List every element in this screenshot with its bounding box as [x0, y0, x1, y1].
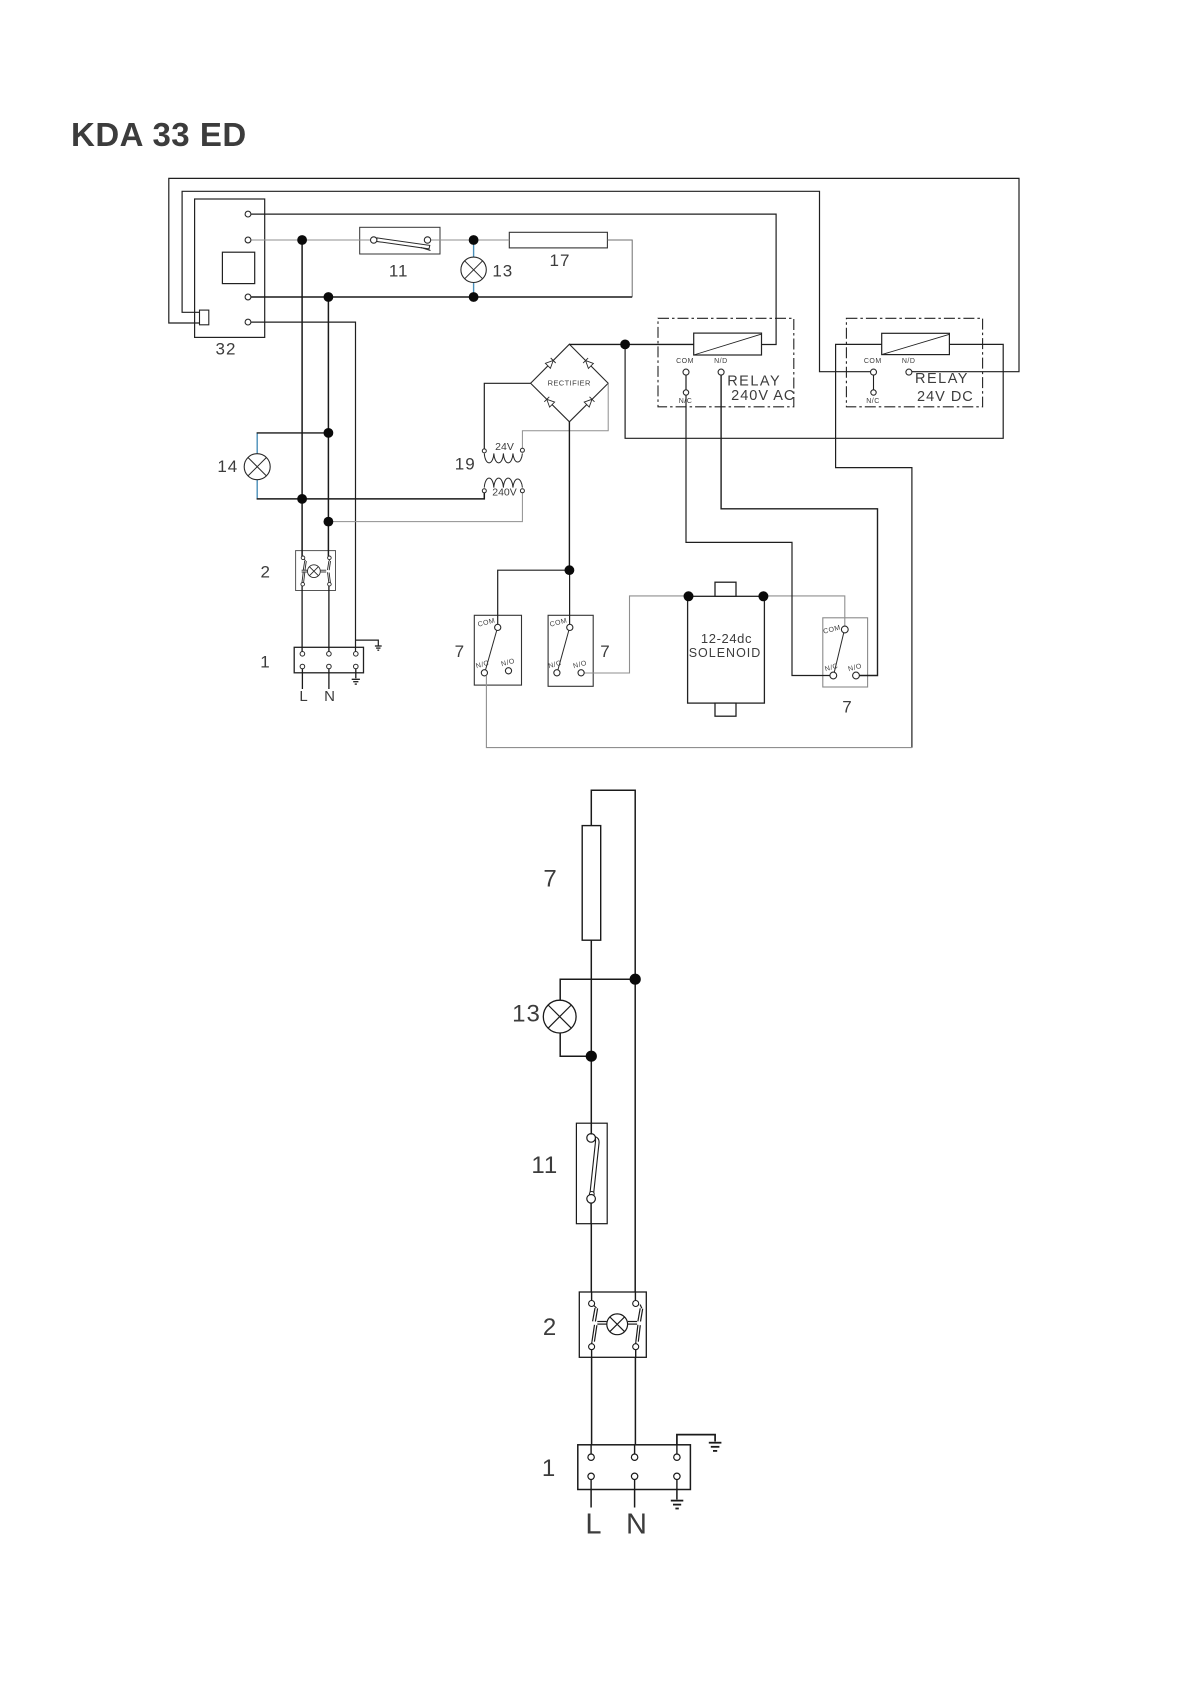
terminal box 32: [195, 199, 265, 337]
wire rectifier + output to U1 coil left: [569, 343, 693, 345]
switch 2 lower (illuminated rocker): [579, 1292, 646, 1357]
wire lamp14 top to N drop node: [257, 432, 329, 434]
svg-text:32: 32: [216, 340, 237, 359]
wire node N to transformer 240V right (gray): [328, 493, 522, 522]
svg-text:19: 19: [455, 455, 476, 474]
wire earth tail lower block: [676, 1476, 678, 1499]
svg-text:13: 13: [512, 1001, 541, 1028]
wire switch 11 to lamp 13 node (gray): [430, 239, 473, 241]
fuse 7 body: [582, 826, 601, 941]
svg-text:17: 17: [550, 251, 571, 270]
svg-text:11: 11: [531, 1152, 558, 1179]
node on L rail at switch feed: [297, 235, 307, 245]
node lamp14 top: [324, 428, 334, 438]
svg-text:COM: COM: [864, 358, 882, 365]
wire top loop of lower diagram: [591, 790, 635, 1301]
wire lamp13 branch top: [560, 979, 635, 1000]
wire second frame: tab 32 to relay U2 COM: [182, 191, 871, 371]
node rectifier minus: [565, 565, 575, 575]
switch 7b contacts and lever: [554, 624, 584, 676]
switch 7a contacts and lever: [481, 624, 511, 676]
switch 2 box (illuminated rocker): [296, 551, 336, 591]
wire switch 2 right leg to block 1: [634, 1347, 636, 1456]
node lamp14 bottom: [297, 494, 307, 504]
rectifier bridge body: [531, 344, 609, 422]
wire 32 terminal2 to switch 11 (gray): [251, 239, 371, 241]
lamp 13: [461, 257, 486, 282]
wire switch 11 to switch 2: [590, 1201, 592, 1301]
switch 7b box: [548, 615, 593, 686]
wire lamp13 node to resistor 17 (gray): [474, 239, 510, 241]
wire switch 7b N/O to solenoid left terminal (gray): [583, 596, 689, 673]
switch 2 internals (lamp and levers): [302, 559, 331, 583]
switch 7a box: [474, 615, 521, 685]
junction node dots upper diagram: [297, 235, 768, 601]
relay U1 coil: [694, 333, 762, 355]
ground symbol below block 1: [352, 679, 360, 684]
wire resistor 17 return to lamp13 bottom rail: [607, 240, 632, 297]
svg-text:RELAY: RELAY: [915, 371, 969, 387]
wire lamp14 top lead (blue): [256, 434, 258, 455]
labels lower diagram: [512, 865, 647, 1540]
svg-text:N: N: [324, 688, 335, 705]
relay U1 dash-dot enclosure RELAY 240V AC: [658, 318, 794, 407]
terminal block 1 lower: [578, 1445, 691, 1490]
svg-text:L: L: [585, 1509, 601, 1541]
relay U1 contact pins: [683, 369, 724, 395]
wire L tail lower block: [590, 1476, 592, 1507]
svg-text:24V DC: 24V DC: [917, 389, 974, 405]
ground symbol below lower block: [671, 1501, 684, 1509]
switch 7c contacts and lever: [830, 626, 860, 679]
svg-text:KDA 33 ED: KDA 33 ED: [71, 116, 247, 153]
switch 7c box: [823, 618, 868, 687]
svg-text:COM: COM: [676, 358, 694, 365]
node main rail / lamp return: [586, 1051, 597, 1062]
wire lamp13 bottom lead (blue): [473, 283, 475, 297]
svg-text:N/C: N/C: [679, 398, 693, 405]
resistor 17 body: [509, 232, 607, 248]
svg-text:7: 7: [842, 698, 852, 717]
svg-text:7: 7: [543, 865, 557, 892]
wire stubs inside terminal block 1 lower: [591, 1445, 677, 1490]
lamp 14: [244, 454, 270, 480]
connector tab on box 32: [200, 310, 209, 325]
switch 7b pin labels: [548, 617, 588, 670]
wire solenoid right terminal to switch 7c COM (gray): [763, 596, 844, 628]
component labels upper diagram: [216, 251, 853, 717]
svg-text:240V: 240V: [492, 486, 517, 498]
svg-text:24V: 24V: [495, 441, 514, 453]
node transformer 240V right: [324, 517, 334, 527]
wire outer frame: tab 32 to relay U2 N/D: [169, 178, 1019, 371]
wire L tail below block1: [301, 667, 303, 690]
relay U1 labels: [676, 358, 795, 405]
svg-text:RECTIFIER: RECTIFIER: [548, 378, 591, 387]
wire stubs inside switch 2 box: [592, 1292, 636, 1357]
wire earth branch of block 1: [356, 640, 379, 646]
svg-text:N/D: N/D: [714, 358, 728, 365]
wire rectifier right to transformer 24V right (gray): [522, 383, 608, 448]
wire fuse bottom to switch 11: [590, 940, 592, 1136]
svg-text:240V AC: 240V AC: [731, 388, 795, 404]
wire node to switch 7a COM: [498, 570, 570, 629]
wire lamp13 top lead (blue): [473, 241, 475, 258]
wire switch2 right leg to block1: [328, 584, 330, 654]
wire N tail lower block: [634, 1476, 636, 1507]
rectifier diodes: [545, 361, 593, 408]
wire node to switch 7b COM: [569, 570, 571, 629]
wire lamp13 branch bottom: [560, 1033, 591, 1056]
relay U2 coil: [882, 333, 950, 354]
wire switch 2 left leg to block 1: [591, 1347, 593, 1456]
wire bottom rail: 32 terminal3 to resistor return: [251, 296, 632, 298]
wire bottom long rail (gray): [486, 676, 912, 748]
svg-text:11: 11: [389, 262, 409, 281]
svg-text:2: 2: [260, 563, 270, 582]
wire L drop: node at 240 down to switch 2: [301, 240, 303, 558]
node rectifier plus: [620, 340, 630, 350]
wire U2 COM to N/C link: [873, 375, 875, 391]
svg-text:7: 7: [455, 642, 465, 661]
solenoid body 12-24dc: [688, 582, 765, 716]
wire earth loop of block 1: [677, 1435, 715, 1455]
node right rail / lamp branch: [630, 974, 641, 985]
wire earth tail below block1: [355, 667, 357, 679]
ground symbol top right of lower block: [709, 1443, 722, 1451]
terminal block 1: [294, 647, 363, 673]
svg-text:N/C: N/C: [866, 398, 880, 405]
switch 11 contacts and lever: [371, 237, 431, 251]
wire 32 terminal1 to U1 coil right: [251, 214, 776, 344]
transformer 19 primary/secondary windings: [484, 453, 522, 487]
wire 32 terminal4 to earth of block 1: [251, 322, 356, 654]
switch 7c pin labels: [823, 624, 863, 673]
wire switch2 left leg to block1: [301, 584, 303, 654]
svg-text:RELAY: RELAY: [727, 374, 781, 390]
wire stubs inside switch 11 box: [590, 1123, 592, 1224]
wire rectifier - output down: [568, 422, 570, 570]
wire rectifier + loop to U2 coil right: [625, 344, 1003, 438]
svg-text:N: N: [626, 1509, 647, 1541]
relay U2 labels: [864, 358, 974, 405]
wire N drop: node at 297 down to switch 2: [327, 297, 329, 558]
wire U1 COM/NC chain to switch 7c N/C: [686, 375, 831, 676]
lamp 13 lower: [543, 1000, 576, 1033]
switch 11 lower: [576, 1123, 607, 1224]
node lamp13 top: [469, 235, 479, 245]
wire U2 coil left to bottom rail to switch 7a N/C: [836, 344, 912, 747]
relay U2 contact pins: [871, 369, 912, 395]
wire N tail below block1: [328, 667, 330, 690]
svg-text:2: 2: [543, 1314, 557, 1341]
node solenoid right terminal: [758, 591, 768, 601]
wire U1 N/D to switch 7c N/O: [721, 375, 877, 676]
svg-text:14: 14: [217, 457, 238, 476]
svg-text:SOLENOID: SOLENOID: [689, 646, 762, 660]
svg-text:1: 1: [542, 1455, 556, 1482]
svg-text:13: 13: [492, 262, 513, 281]
svg-text:N/D: N/D: [902, 358, 916, 365]
relay U2 dash-dot enclosure RELAY 24V DC: [846, 318, 982, 407]
terminal block 1 pins: [300, 652, 358, 669]
wire rectifier left to transformer 24V left: [484, 383, 530, 449]
svg-text:7: 7: [600, 642, 610, 661]
node lamp13 bottom: [469, 292, 479, 302]
svg-text:12-24dc: 12-24dc: [701, 631, 752, 646]
node on N rail: [324, 292, 334, 302]
switch 7a pin labels: [475, 617, 516, 670]
svg-text:L: L: [299, 688, 307, 705]
wire lamp14 bottom to transformer 240V left: [257, 493, 485, 499]
svg-text:1: 1: [260, 653, 270, 672]
box 32 terminal pins: [245, 211, 251, 325]
junction node dots lower diagram: [586, 974, 641, 1062]
switch 11 box (microswitch): [360, 227, 440, 254]
wire lamp14 bottom lead (blue): [256, 480, 258, 499]
ground symbol at block 1 top right: [375, 646, 382, 650]
node solenoid left terminal: [684, 591, 694, 601]
